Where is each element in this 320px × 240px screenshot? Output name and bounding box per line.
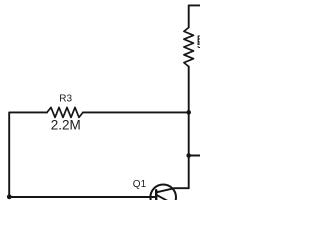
svg-text:Q1: Q1: [133, 179, 147, 190]
transistor Q1 collector lead: [156, 188, 188, 192]
wire supply feed top right: [189, 5, 200, 27]
wire R3 right lead to node: [83, 111, 189, 113]
svg-text:R3: R3: [59, 94, 72, 105]
transistor Q1 body circle: [150, 185, 176, 211]
resistor R4: [184, 28, 194, 67]
wire left rail from R3 down: [9, 112, 47, 196]
node output junction: [186, 153, 191, 158]
node bottom left junction: [7, 194, 12, 199]
wire output stub to right edge: [189, 155, 200, 157]
wire base rail bottom: [9, 196, 156, 198]
svg-text:2.2M: 2.2M: [51, 118, 81, 133]
transistor Q1 base bar: [155, 190, 157, 204]
transistor Q1 emitter lead: [157, 195, 167, 201]
node base divider junction: [186, 110, 191, 115]
svg-text:56k: 56k: [197, 40, 200, 50]
wire R4 bottom to collector corner: [188, 67, 190, 189]
resistor R3: [47, 107, 83, 117]
